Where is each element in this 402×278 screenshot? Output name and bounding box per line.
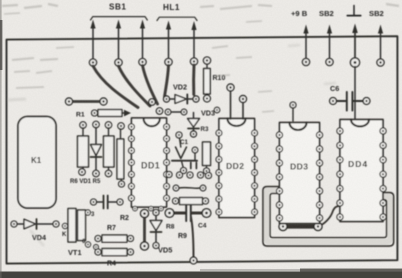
arrow SB2-b xyxy=(380,32,382,59)
wire jumper beside DD1 xyxy=(117,129,125,187)
arrow HL1-b xyxy=(193,28,195,58)
long trace R9 to bottom pad xyxy=(178,217,197,264)
node near DD3 top xyxy=(290,102,296,108)
arrow HL1-a xyxy=(168,28,170,60)
thick trace with capacitor C4 xyxy=(165,203,211,231)
resistor R1 xyxy=(76,110,131,119)
resistor (horizontal, between DD1 and DD2) xyxy=(173,198,209,205)
arrow +9V xyxy=(305,32,307,59)
transistor VT1 xyxy=(62,209,98,258)
jumper wire node row under VD2 xyxy=(165,109,215,118)
thick trace with two pads under DD3 xyxy=(279,206,340,231)
wire stub to DD2 pin 1 xyxy=(214,84,246,119)
relay K1 xyxy=(18,117,56,209)
resistor R6 xyxy=(78,128,89,175)
diode VD3 (vertical) xyxy=(188,113,200,138)
diode VD5 (vertical) xyxy=(150,210,172,255)
arrow ground xyxy=(354,31,356,59)
pad row above R6/VD1/R5 xyxy=(80,121,124,129)
SB1 group bracket xyxy=(91,17,148,20)
HL1 group bracket xyxy=(157,17,197,20)
IC DD1 xyxy=(129,118,170,207)
capacitor C1 (electrolytic, vertical) xyxy=(172,132,197,174)
wire trace SB1-c to DD1 xyxy=(143,66,158,105)
diode VD4 xyxy=(11,219,59,242)
wire trace SB1-a to DD1 xyxy=(93,65,194,108)
capacitor C6 xyxy=(330,67,370,119)
node near DD2 top-left xyxy=(214,107,219,112)
diode VD1 (vertical) xyxy=(91,128,102,177)
top pad row (+9V / SB2 / gnd nets) xyxy=(302,58,384,67)
arrow SB1-a xyxy=(90,20,383,60)
wire stub to DD2 top xyxy=(240,96,247,103)
arrow SB2-a xyxy=(329,32,331,59)
arrow SB1-c xyxy=(142,27,144,60)
capacitor C2 (near VT1 top) xyxy=(91,196,124,209)
wire trace HL1-a to VD2 anode xyxy=(165,66,169,98)
resistor R7 xyxy=(95,225,134,242)
ground trace loop around DD3/DD4 bottoms xyxy=(263,187,394,246)
wire trace HL1-b to VD2 cathode xyxy=(192,65,195,95)
pads under DD1 bottom edge xyxy=(133,206,164,211)
node pads at DD1 notch xyxy=(149,99,163,114)
pad row between DD1 and DD2 xyxy=(166,172,212,179)
wire jumper (between DD1 and DD2) xyxy=(173,185,206,191)
arrow SB1-b xyxy=(118,27,120,60)
scan smudges and noise marks xyxy=(2,4,399,112)
ground symbol xyxy=(347,6,360,16)
resistor R3 xyxy=(201,126,211,174)
IC DD4 xyxy=(337,120,386,222)
capacitor C5 (vertical) xyxy=(191,147,198,168)
resistor R10 xyxy=(203,57,225,102)
resistor R4 xyxy=(95,249,134,268)
scan edge artifacts xyxy=(0,272,402,278)
wire jumper top-left xyxy=(66,98,108,105)
IC DD3 xyxy=(276,123,322,224)
diode VD2 xyxy=(164,83,200,104)
wire trace SB1-b to DD1 xyxy=(119,66,151,106)
resistor R5 xyxy=(104,128,115,177)
board outline xyxy=(7,36,398,263)
label R2 and wire jumper R2 xyxy=(120,210,149,251)
IC DD2 xyxy=(216,119,258,218)
top pad row (SB1/HL1 nets) xyxy=(89,58,197,66)
